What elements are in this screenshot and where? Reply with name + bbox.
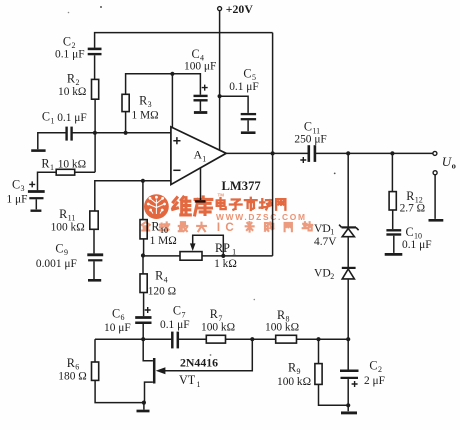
wire: R9 branch down <box>318 339 320 363</box>
terminal Uo upper <box>433 151 437 155</box>
node: R10 tap on inverting line <box>141 179 145 183</box>
svg-text:I: I <box>217 222 220 234</box>
ground bar at C1 left <box>31 149 45 152</box>
resistor R3 <box>122 94 159 122</box>
wire: C10 ground stub <box>393 236 395 253</box>
node: rail meets zener chain <box>346 337 350 341</box>
node: gate feed junction <box>250 337 254 341</box>
label Uo <box>442 154 456 171</box>
svg-text:1: 1 <box>197 380 201 389</box>
svg-text:1 μF: 1 μF <box>7 193 28 205</box>
ground bar bottom-right <box>341 411 357 414</box>
svg-text:1: 1 <box>50 163 54 172</box>
wire: +20V supply line down to op-amp top edge <box>219 11 221 151</box>
wire: R3 bottom to +input line <box>125 112 127 133</box>
ground bar below Uo <box>429 219 444 222</box>
terminal Uo lower <box>433 171 437 175</box>
capacitor C1 <box>42 110 87 141</box>
wire: RP1 wiper arm to right lead <box>193 235 224 256</box>
wire: gate line from R7/R8 node <box>163 339 252 371</box>
node: R10/R4/RP1 junction <box>141 253 145 257</box>
svg-text:0.1 μF: 0.1 μF <box>402 239 432 251</box>
capacitor C7 <box>160 304 190 349</box>
wire: bottom rail left of C7 <box>95 338 172 340</box>
JFET VT1 2N4416 <box>143 339 154 402</box>
wire: C2 to R2 <box>94 55 96 79</box>
svg-text:C: C <box>192 47 200 61</box>
node: C5 tap on +20V line <box>218 94 222 98</box>
svg-text:100 kΩ: 100 kΩ <box>265 322 299 334</box>
svg-text:1 MΩ: 1 MΩ <box>132 110 159 122</box>
ground bar below C5 <box>241 131 256 134</box>
watermark 电子市场网 <box>217 198 286 210</box>
wire: C4 ground stub <box>199 101 201 111</box>
svg-text:100 μF: 100 μF <box>184 61 216 73</box>
svg-text:C: C <box>112 307 120 321</box>
wire: ground stub <box>143 403 145 410</box>
RP1 wiper arrowhead <box>190 243 196 251</box>
wire: R8 to zener chain <box>297 338 349 340</box>
wire: bias node down to op-amp top vertex <box>171 74 173 128</box>
wire: C3 to ground stub <box>35 199 37 209</box>
potentiometer RP1 body <box>180 241 237 270</box>
svg-text:C: C <box>406 225 414 239</box>
svg-text:LM377: LM377 <box>222 179 261 193</box>
capacitor C6 <box>104 307 152 335</box>
scan specks (noise) <box>68 6 336 356</box>
svg-text:1 kΩ: 1 kΩ <box>214 258 237 270</box>
svg-text:C: C <box>42 110 50 124</box>
resistor R1 <box>41 157 86 176</box>
svg-text:C: C <box>304 120 312 134</box>
svg-text:2: 2 <box>330 272 334 281</box>
svg-text:1: 1 <box>202 154 206 163</box>
wire: R4 to C6 <box>143 293 145 317</box>
wire: RP1 left lead to divider node <box>143 255 180 257</box>
ground bar below C10 <box>385 253 403 256</box>
capacitor C11 <box>294 120 326 163</box>
capacitor C9 <box>36 241 103 270</box>
wire: C1 left lead to terminal stub <box>38 133 66 149</box>
wire: R1 right lead up-corner to +input node <box>75 171 95 173</box>
svg-text:VD: VD <box>314 222 331 235</box>
node: bottom-right ground junction <box>346 403 350 407</box>
VT1 gate arrowhead <box>156 367 166 374</box>
svg-text:WWW.DZSC.COM: WWW.DZSC.COM <box>216 212 307 222</box>
resistor R4 <box>140 269 176 298</box>
wire: R3 top across to C4 <box>126 74 201 95</box>
wire: output line from op-amp to terminal <box>226 152 433 154</box>
watermark logo circle <box>144 194 169 219</box>
resistor R12 <box>389 153 425 214</box>
resistor R10 <box>140 219 177 247</box>
label VT1 <box>179 373 201 389</box>
wire: right bootstrap/feedback vertical down to output node and RP1 <box>272 33 274 256</box>
svg-text:2N4416: 2N4416 <box>180 355 218 369</box>
wire: node to R4 <box>142 256 144 274</box>
svg-text:+20V: +20V <box>226 2 254 16</box>
svg-text:o: o <box>452 161 456 171</box>
wire: lower terminal to ground <box>434 175 436 219</box>
svg-text:9: 9 <box>297 367 301 376</box>
svg-text:VD: VD <box>314 267 331 280</box>
ground bar center-bottom <box>137 410 150 413</box>
terminal +20V <box>218 7 222 11</box>
wire: R1 left lead down to C3 <box>38 172 57 190</box>
svg-text:4: 4 <box>164 275 168 284</box>
svg-text:1: 1 <box>50 116 54 125</box>
capacitor C2 output (2uF) <box>340 359 385 388</box>
resistor R9 <box>277 361 322 388</box>
svg-text:A: A <box>194 148 203 162</box>
node: wiper tie to right lead <box>221 254 225 258</box>
svg-text:10 kΩ: 10 kΩ <box>58 86 86 98</box>
ground bar below C3 <box>31 209 42 211</box>
svg-text:2: 2 <box>378 365 382 374</box>
capacitor C4 <box>184 47 216 100</box>
resistor R2 <box>58 71 99 99</box>
node: R3 bottom on +input line <box>124 131 128 135</box>
wire: R10 chain <box>142 181 144 220</box>
ground bar below C4 <box>194 111 207 114</box>
svg-text:9: 9 <box>64 248 68 257</box>
svg-text:3: 3 <box>21 184 25 193</box>
node: +input junction (R2/C1/+line) <box>93 131 97 135</box>
svg-text:C: C <box>63 35 71 49</box>
wire: R6 to bottom ground run <box>95 380 144 402</box>
node: zener branch junction <box>346 151 350 155</box>
svg-text:4.7V: 4.7V <box>314 236 337 248</box>
wire: C9 ground stub <box>93 261 95 279</box>
svg-text:100 kΩ: 100 kΩ <box>51 221 85 233</box>
svg-text:C: C <box>55 241 63 255</box>
svg-text:250 μF: 250 μF <box>294 134 326 146</box>
wire: R9 to bottom node <box>319 384 349 405</box>
ground bar op-amp pin <box>195 200 206 202</box>
svg-text:C: C <box>12 177 20 191</box>
svg-text:10 μF: 10 μF <box>104 322 131 334</box>
op-amp A1 (LM377) <box>171 127 226 185</box>
wire: inverting input line to op-amp <box>95 181 171 211</box>
svg-text:1: 1 <box>232 248 236 257</box>
node: output/bootstrap junction <box>271 151 275 155</box>
resistor R11 <box>51 207 99 233</box>
svg-text:3: 3 <box>148 100 152 109</box>
svg-text:C: C <box>173 304 181 318</box>
wire: non-inverting input line C1 to op-amp <box>72 132 171 134</box>
wire: left rail down to R6 <box>94 339 96 362</box>
svg-text:0.1 μF: 0.1 μF <box>229 81 259 93</box>
wire: to C5 <box>220 96 249 113</box>
svg-text:0.001 μF: 0.001 μF <box>36 258 77 270</box>
wire: R2 down to +input node, then to R1 corner <box>94 99 96 172</box>
svg-text:10 kΩ: 10 kΩ <box>58 159 86 171</box>
svg-text:C: C <box>225 222 233 234</box>
svg-text:TM: TM <box>218 193 225 198</box>
svg-text:VT: VT <box>179 373 196 387</box>
svg-text:100 kΩ: 100 kΩ <box>277 376 311 388</box>
wire: top bootstrap rail from C2 top across to right drop <box>95 33 273 48</box>
svg-text:1 MΩ: 1 MΩ <box>150 235 177 247</box>
svg-text:180 Ω: 180 Ω <box>58 371 86 383</box>
svg-text:0.1 μF: 0.1 μF <box>160 319 190 331</box>
capacitor C10 <box>386 225 431 251</box>
wire: op-amp ground pin <box>200 168 202 200</box>
diode VD2 <box>314 267 356 282</box>
wire: R11 to C9 <box>93 229 95 253</box>
wire: C5 ground stub <box>247 120 249 131</box>
node: source/ground junction <box>142 401 146 405</box>
node: R12 branch junction <box>390 151 394 155</box>
wire: R7 to R8 <box>226 338 276 340</box>
resistor R7 <box>201 307 235 343</box>
node: bias junction above op-amp <box>170 72 174 76</box>
node: C6/VT1 drain junction <box>141 337 145 341</box>
watermark 维库 <box>173 193 225 215</box>
svg-text:2 μF: 2 μF <box>364 375 385 387</box>
ground bar below C9 <box>88 279 101 282</box>
node: R9 branch <box>316 337 320 341</box>
svg-text:6: 6 <box>121 313 125 322</box>
svg-text:100 kΩ: 100 kΩ <box>201 321 235 333</box>
wire: ground stub <box>347 405 349 411</box>
wire: zener chain vertical <box>347 153 349 370</box>
resistor R6 <box>58 356 98 383</box>
wire: R12 to C10 <box>392 210 394 229</box>
capacitor C3 <box>7 177 45 205</box>
capacitor C2 <box>55 35 102 61</box>
wire: R10 to node <box>143 239 145 256</box>
wire: C6 to bottom rail node <box>142 324 144 339</box>
capacitor C5 <box>229 67 259 120</box>
watermark 全球最大IC采购网站 <box>142 222 312 234</box>
svg-text:C: C <box>369 359 377 373</box>
wire: feedback from vertical to RP1 right lead <box>202 255 273 257</box>
svg-text:2.7 Ω: 2.7 Ω <box>400 202 426 214</box>
svg-text:120 Ω: 120 Ω <box>148 286 176 298</box>
svg-text:0.1 μF: 0.1 μF <box>57 112 87 124</box>
svg-text:C: C <box>243 67 251 81</box>
svg-text:0.1 μF: 0.1 μF <box>55 49 85 61</box>
zener diode VD1 <box>314 222 359 248</box>
resistor R8 <box>265 308 299 343</box>
svg-text:7: 7 <box>181 310 185 319</box>
wire: bottom rail C7 to R7 <box>178 338 206 340</box>
wire: C2 to ground node <box>347 379 349 405</box>
